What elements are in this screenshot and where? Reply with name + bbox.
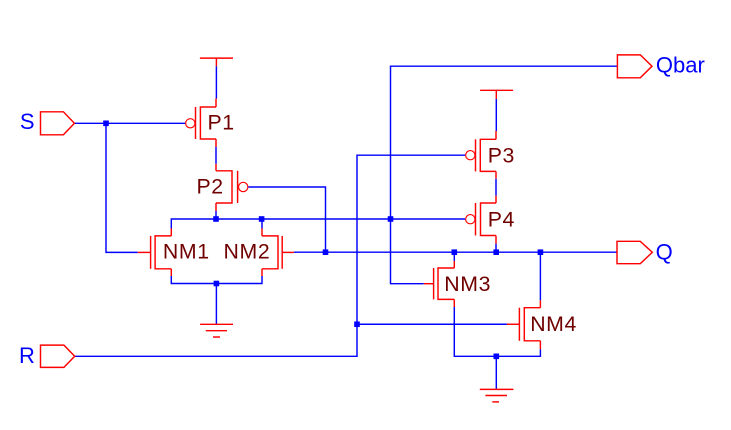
svg-text:S: S [20, 109, 35, 134]
svg-text:Q: Q [656, 240, 673, 265]
svg-text:Qbar: Qbar [656, 52, 705, 77]
svg-text:P3: P3 [488, 144, 515, 168]
svg-text:P4: P4 [488, 208, 515, 232]
svg-text:P1: P1 [208, 110, 235, 134]
svg-text:R: R [19, 343, 35, 368]
svg-text:NM1: NM1 [163, 240, 210, 264]
svg-text:NM4: NM4 [530, 312, 577, 336]
svg-text:NM2: NM2 [224, 240, 271, 264]
svg-text:NM3: NM3 [444, 272, 491, 296]
svg-text:P2: P2 [197, 175, 224, 199]
